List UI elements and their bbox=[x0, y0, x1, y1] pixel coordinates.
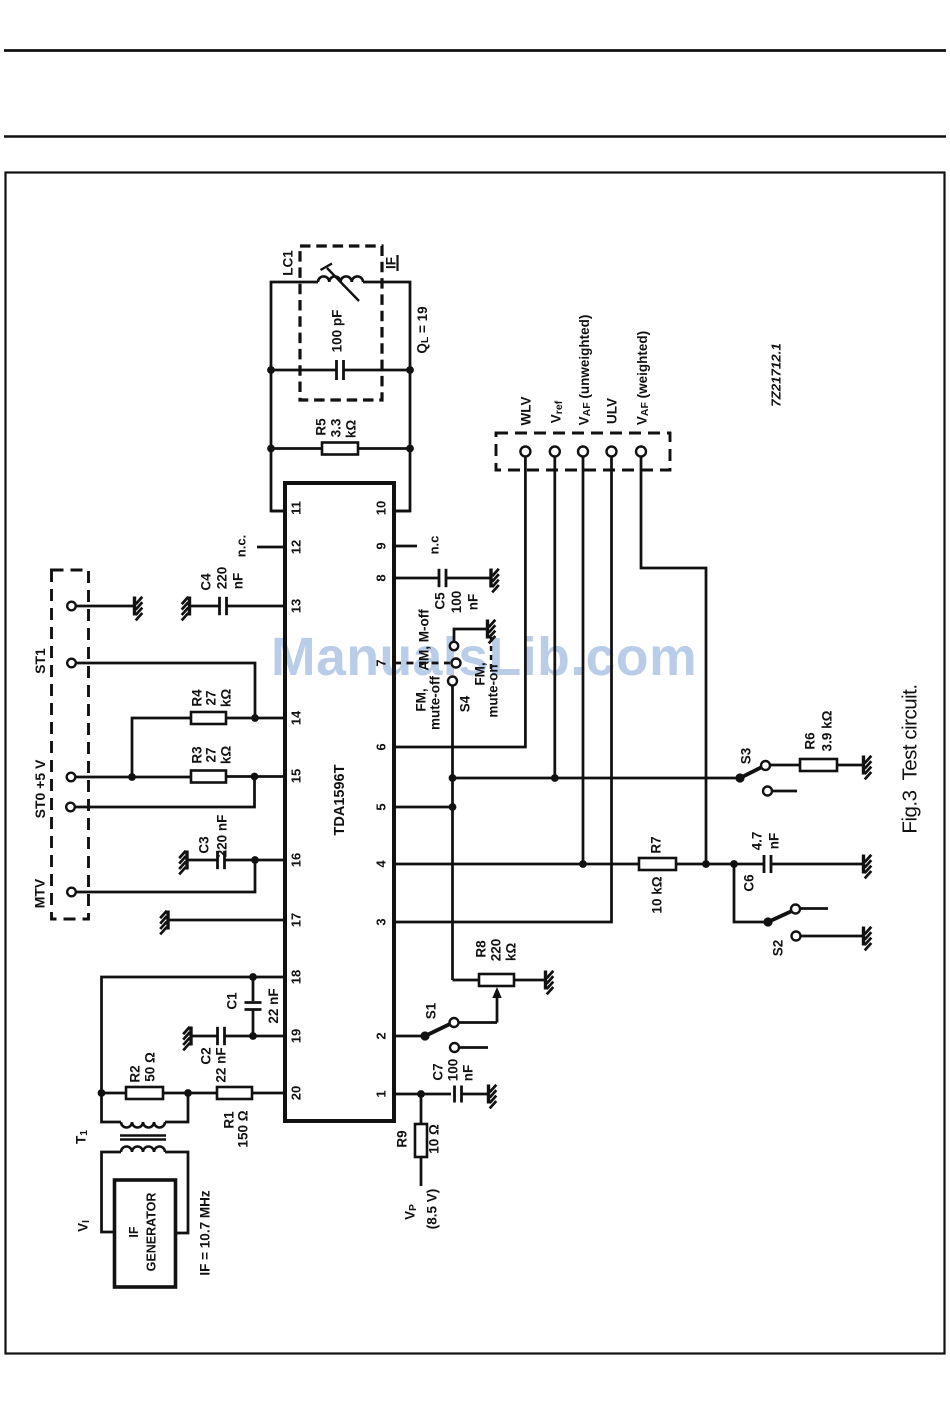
svg-text:n.c: n.c bbox=[427, 536, 442, 555]
node VAF unweighted terminal bbox=[578, 447, 588, 457]
node VAF weighted terminal bbox=[636, 447, 646, 457]
capacitor C7 100 nF bbox=[453, 1086, 456, 1103]
svg-text:1: 1 bbox=[374, 1090, 389, 1097]
svg-text:kΩ: kΩ bbox=[219, 689, 234, 708]
wire Vref down bbox=[553, 457, 556, 779]
node junction R2 left bbox=[98, 1089, 106, 1097]
svg-text:10 kΩ: 10 kΩ bbox=[650, 876, 665, 913]
node junction dots R5 line bbox=[267, 445, 275, 453]
node ST0 +5V terminal circle bbox=[67, 773, 76, 782]
svg-text:n.c.: n.c. bbox=[234, 535, 249, 557]
svg-text:nF: nF bbox=[231, 573, 246, 590]
resistor R5 3.3 kOhm bbox=[271, 447, 322, 450]
transformer T1 primary bbox=[121, 1147, 165, 1152]
resistor R4 27 kOhm bbox=[132, 718, 191, 777]
wire pin 17 bbox=[169, 919, 285, 922]
svg-text:27: 27 bbox=[204, 747, 219, 762]
switch S4 contact to pin 7 bbox=[452, 659, 461, 668]
op-amp U1 IC TDA1596T body bbox=[285, 483, 394, 1121]
node junction C1 bottom bbox=[249, 1032, 257, 1040]
svg-text:13: 13 bbox=[289, 599, 304, 613]
capacitor C5 100 nF bbox=[394, 577, 439, 580]
wire S4 common down to pin5 and R8 bbox=[451, 686, 454, 981]
node junction VAF weighted bbox=[702, 860, 710, 868]
svg-text:mute-off: mute-off bbox=[428, 676, 443, 730]
wire ST0 pair terminal to R3 right node bbox=[75, 777, 255, 808]
svg-text:GENERATOR: GENERATOR bbox=[145, 1193, 159, 1272]
node junction S2 branch bbox=[730, 860, 738, 868]
node ULV terminal bbox=[607, 447, 617, 457]
wire mute line to S3 bbox=[453, 777, 741, 780]
switch S2 bbox=[763, 917, 772, 926]
node junction R4/ST1 bbox=[251, 714, 259, 722]
node WLV terminal bbox=[520, 447, 530, 457]
svg-text:17: 17 bbox=[289, 913, 304, 927]
capacitor 100 pF of LC1 bbox=[271, 369, 337, 372]
output connector dashed box bbox=[496, 433, 670, 470]
switch S1 open contact bbox=[450, 1043, 459, 1052]
svg-text:22 nF: 22 nF bbox=[214, 1047, 229, 1082]
svg-text:ULV: ULV bbox=[605, 398, 620, 424]
svg-text:LC1: LC1 bbox=[281, 250, 296, 276]
ground bbox=[133, 597, 136, 616]
svg-text:nF: nF bbox=[466, 594, 481, 611]
svg-text:C4: C4 bbox=[199, 573, 214, 591]
ground for C5 bbox=[489, 569, 492, 588]
svg-text:R7: R7 bbox=[649, 836, 664, 853]
terminal circle (gnd) bbox=[67, 602, 76, 611]
svg-text:mute-on: mute-on bbox=[486, 664, 501, 717]
switch S4 upper contact to ground bbox=[450, 642, 458, 650]
wire WLV to pin 6 bbox=[394, 457, 525, 748]
switch S2 ground contact bbox=[792, 932, 801, 941]
svg-text:4.7: 4.7 bbox=[750, 832, 765, 851]
ground for C3 bbox=[185, 851, 188, 870]
svg-text:ST0 +5 V: ST0 +5 V bbox=[32, 759, 48, 818]
svg-text:100: 100 bbox=[449, 591, 464, 614]
svg-text:C5: C5 bbox=[433, 592, 448, 610]
node Vref terminal bbox=[550, 447, 560, 457]
ground for C4 bbox=[188, 597, 191, 616]
svg-text:nF: nF bbox=[461, 1065, 476, 1082]
svg-text:11: 11 bbox=[289, 501, 304, 515]
resistor R6 3.9 kOhm bbox=[800, 759, 837, 771]
svg-text:C2: C2 bbox=[199, 1047, 214, 1064]
svg-text:nF: nF bbox=[767, 833, 782, 850]
node junction Vref bbox=[551, 774, 559, 782]
svg-text:R8: R8 bbox=[474, 940, 489, 958]
transformer T1 core bbox=[120, 1134, 166, 1136]
svg-text:6: 6 bbox=[374, 743, 389, 750]
node junction R4 left on ST0 line bbox=[128, 773, 136, 781]
svg-text:C7: C7 bbox=[431, 1063, 446, 1080]
resistor R7 10 kOhm bbox=[639, 858, 676, 870]
ST connector dashed box bbox=[52, 570, 89, 919]
capacitor C1 22 nF bbox=[252, 977, 255, 1001]
wire pin 18 to transformer node bbox=[102, 977, 286, 1093]
svg-text:4: 4 bbox=[374, 860, 389, 868]
svg-text:7Z21712.1: 7Z21712.1 bbox=[769, 343, 784, 407]
svg-text:100 pF: 100 pF bbox=[330, 310, 345, 353]
capacitor C6 4.7 nF bbox=[763, 855, 766, 873]
svg-text:MTV: MTV bbox=[32, 878, 48, 908]
capacitor C3 220 nF bbox=[188, 859, 218, 862]
svg-text:C1: C1 bbox=[225, 992, 240, 1010]
ground for C7 bbox=[487, 1085, 490, 1104]
svg-text:kΩ: kΩ bbox=[344, 420, 359, 439]
resistor R3 27 kOhm bbox=[191, 771, 226, 783]
svg-text:S4: S4 bbox=[458, 695, 473, 712]
wire pin 11 left rail bbox=[271, 282, 318, 511]
svg-text:20: 20 bbox=[289, 1086, 304, 1100]
svg-text:8: 8 bbox=[374, 574, 389, 581]
switch S3 open contact bbox=[763, 787, 772, 796]
svg-text:150 Ω: 150 Ω bbox=[236, 1110, 251, 1147]
wire to S2 bbox=[734, 864, 764, 922]
svg-text:19: 19 bbox=[289, 1029, 304, 1043]
terminal circle (pair of ST0) bbox=[66, 803, 75, 812]
svg-text:22 nF: 22 nF bbox=[266, 988, 281, 1023]
ground for S2 bbox=[862, 927, 865, 946]
node junction pin5 bbox=[449, 803, 457, 811]
svg-text:C3: C3 bbox=[197, 836, 212, 854]
wire ST1 to pin 14 node bbox=[76, 663, 255, 718]
svg-text:S2: S2 bbox=[771, 940, 786, 957]
svg-text:2: 2 bbox=[374, 1032, 389, 1039]
wiper arrow of R8 bbox=[496, 996, 499, 1023]
node junction R3 right bbox=[251, 773, 259, 781]
ground for C6 bbox=[862, 855, 865, 874]
svg-text:10 Ω: 10 Ω bbox=[427, 1124, 442, 1154]
wire gnd terminal to ground bbox=[76, 605, 133, 608]
svg-text:TDA1596T: TDA1596T bbox=[332, 764, 348, 835]
resistor R9 10 Ohm bbox=[420, 1094, 423, 1124]
svg-text:R5: R5 bbox=[314, 418, 329, 436]
svg-text:kΩ: kΩ bbox=[504, 943, 519, 962]
svg-text:R6: R6 bbox=[803, 732, 818, 750]
wire pin 5 bbox=[394, 806, 453, 809]
svg-text:3: 3 bbox=[374, 918, 389, 925]
svg-text:FM,: FM, bbox=[414, 688, 429, 711]
svg-text:QL = 19: QL = 19 bbox=[415, 306, 432, 353]
switch S4 dashed lever position bbox=[490, 637, 492, 669]
wire VAF unweighted down bbox=[582, 457, 585, 865]
svg-text:15: 15 bbox=[289, 769, 304, 783]
svg-text:100: 100 bbox=[446, 1059, 461, 1082]
svg-text:ST1: ST1 bbox=[32, 648, 48, 674]
svg-text:3.9 kΩ: 3.9 kΩ bbox=[820, 710, 835, 751]
ground pin 17 bbox=[166, 911, 169, 930]
svg-text:IF: IF bbox=[127, 1226, 141, 1237]
svg-text:3.3: 3.3 bbox=[329, 418, 344, 437]
svg-text:R2: R2 bbox=[128, 1065, 143, 1082]
svg-text:(8.5 V): (8.5 V) bbox=[425, 1189, 440, 1230]
node MTV terminal circle bbox=[67, 888, 76, 897]
switch S3 bbox=[735, 773, 744, 782]
trimmer arrow of LC1 bbox=[327, 268, 359, 301]
node junction VAF unweighted bbox=[579, 860, 587, 868]
svg-text:R9: R9 bbox=[395, 1130, 410, 1147]
switch S4 common contact bbox=[448, 677, 457, 686]
svg-text:50 Ω: 50 Ω bbox=[143, 1052, 158, 1082]
wire ST0 line bbox=[75, 776, 191, 779]
wire pin 10 right rail bbox=[363, 282, 410, 511]
svg-text:IF = 10.7 MHz: IF = 10.7 MHz bbox=[198, 1190, 213, 1275]
node junction dots LC1 cap line bbox=[267, 366, 275, 374]
ground for C2 bbox=[189, 1027, 192, 1046]
svg-text:18: 18 bbox=[289, 970, 304, 984]
capacitor C4 220 nF bbox=[191, 605, 220, 608]
node junction pin1/R9 bbox=[417, 1090, 425, 1098]
ground for S4 bbox=[486, 620, 489, 639]
svg-text:5: 5 bbox=[374, 803, 389, 810]
node junction C1 top bbox=[249, 973, 257, 981]
pin 7 dashed stub bbox=[394, 662, 450, 665]
svg-text:220: 220 bbox=[489, 939, 504, 962]
resistor R2 50 Ohm bbox=[102, 1092, 127, 1095]
svg-text:S1: S1 bbox=[424, 1002, 439, 1019]
svg-text:7: 7 bbox=[374, 659, 389, 666]
wire MTV to pin 16 line bbox=[76, 860, 255, 892]
svg-text:AM, M-off: AM, M-off bbox=[417, 609, 432, 671]
svg-text:220: 220 bbox=[215, 567, 230, 590]
svg-text:R3: R3 bbox=[190, 746, 205, 764]
node ST1 terminal circle bbox=[67, 659, 76, 668]
wire pin 1 bbox=[394, 1093, 451, 1096]
svg-text:kΩ: kΩ bbox=[219, 746, 234, 765]
node junction R2 right bbox=[184, 1089, 192, 1097]
svg-text:14: 14 bbox=[289, 710, 304, 725]
svg-text:12: 12 bbox=[289, 540, 304, 554]
pin 11 bbox=[271, 510, 285, 513]
transformer T1 secondary bbox=[102, 1093, 122, 1122]
svg-text:R4: R4 bbox=[190, 689, 205, 707]
pin 9 n.c bbox=[394, 545, 417, 548]
pin 10 bbox=[394, 510, 410, 513]
svg-text:WLV: WLV bbox=[519, 397, 534, 426]
wire pin 4 bbox=[394, 863, 639, 866]
ground for R6 bbox=[862, 756, 865, 775]
node junction S4/y778 bbox=[449, 774, 457, 782]
svg-text:Fig.3 Test circuit.: Fig.3 Test circuit. bbox=[899, 684, 922, 833]
switch S1 bbox=[394, 1035, 425, 1038]
svg-text:16: 16 bbox=[289, 853, 304, 867]
node junction MTV/C3 bbox=[251, 856, 259, 864]
capacitor C2 22 nF bbox=[192, 1035, 218, 1038]
svg-text:C6: C6 bbox=[742, 874, 757, 892]
IF generator box bbox=[115, 1180, 176, 1287]
wire ULV to pin 3 bbox=[394, 457, 612, 923]
svg-text:27: 27 bbox=[204, 690, 219, 705]
LC1 dashed box bbox=[300, 246, 382, 400]
svg-text:220 nF: 220 nF bbox=[215, 815, 230, 858]
potentiometer R8 220 kOhm bbox=[453, 979, 480, 982]
svg-text:9: 9 bbox=[374, 542, 389, 549]
svg-text:10: 10 bbox=[374, 501, 389, 515]
ground for R8 bbox=[544, 971, 547, 990]
svg-text:IF: IF bbox=[384, 257, 399, 269]
svg-text:S3: S3 bbox=[739, 747, 754, 764]
inductor LC1 coil bbox=[318, 276, 363, 282]
resistor R1 150 Ohm bbox=[188, 1092, 217, 1095]
wire VAF weighted to R7 right bbox=[641, 457, 706, 865]
pin 12 n.c. bbox=[257, 546, 285, 549]
svg-text:R1: R1 bbox=[222, 1111, 237, 1129]
